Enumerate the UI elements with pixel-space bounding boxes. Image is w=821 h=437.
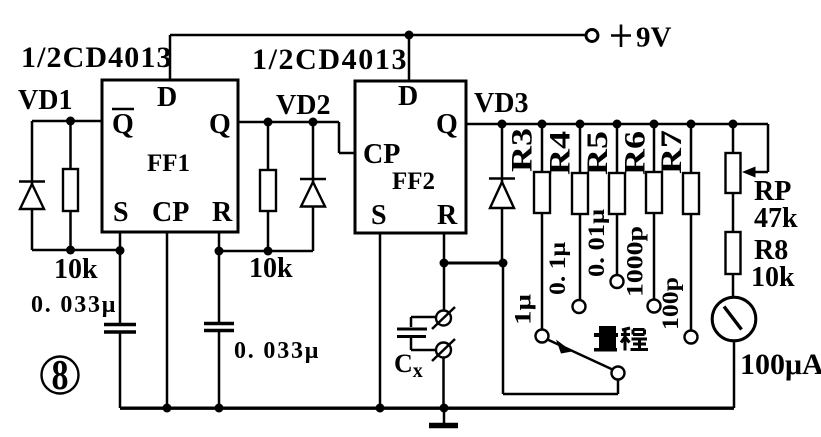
svg-text:100p: 100p: [658, 277, 683, 330]
svg-text:Q: Q: [209, 109, 231, 140]
svg-text:1000p: 1000p: [623, 226, 648, 297]
svg-text:0. 033μ: 0. 033μ: [31, 292, 117, 318]
svg-text:100μA: 100μA: [740, 348, 821, 381]
svg-text:FF1: FF1: [147, 150, 190, 177]
svg-text:47k: 47k: [754, 203, 798, 234]
svg-text:CP: CP: [363, 139, 400, 170]
svg-text:Q: Q: [436, 109, 458, 140]
svg-text:R: R: [437, 200, 458, 231]
svg-text:1μ: 1μ: [511, 294, 536, 325]
svg-text:D: D: [398, 81, 418, 112]
svg-text:0. 01μ: 0. 01μ: [584, 209, 609, 277]
svg-text:Q: Q: [112, 109, 134, 140]
svg-text:9V: 9V: [636, 22, 672, 54]
svg-text:FF2: FF2: [392, 168, 435, 195]
svg-text:0. 1μ: 0. 1μ: [545, 242, 570, 295]
svg-text:R3: R3: [506, 128, 539, 172]
svg-text:D: D: [157, 82, 177, 113]
svg-text:VD2: VD2: [276, 90, 330, 121]
svg-text:S: S: [371, 200, 387, 231]
svg-text:CP: CP: [152, 197, 189, 228]
svg-text:R7: R7: [655, 130, 688, 174]
svg-text:1/2CD4013: 1/2CD4013: [21, 41, 173, 74]
svg-text:1/2CD4013: 1/2CD4013: [252, 43, 408, 76]
svg-text:R4: R4: [544, 131, 577, 175]
svg-text:S: S: [113, 197, 129, 228]
svg-text:VD1: VD1: [18, 85, 72, 116]
svg-text:10k: 10k: [249, 253, 293, 284]
svg-text:10k: 10k: [751, 262, 795, 293]
svg-text:0. 033μ: 0. 033μ: [234, 338, 320, 364]
svg-text:R6: R6: [619, 131, 652, 175]
svg-text:8: 8: [52, 353, 69, 399]
svg-text:VD3: VD3: [474, 88, 528, 119]
svg-text:10k: 10k: [54, 254, 98, 285]
svg-text:R5: R5: [581, 131, 614, 175]
svg-text:R: R: [212, 197, 233, 228]
